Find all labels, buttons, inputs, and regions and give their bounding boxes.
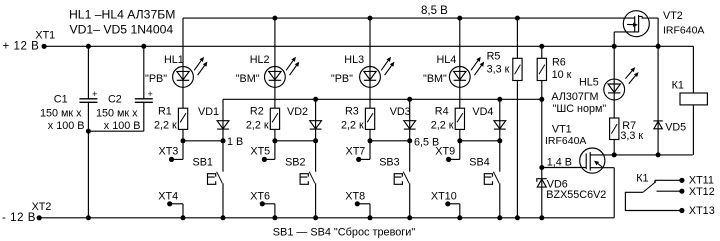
node HL4 on 8.5V bus [457,16,462,21]
node XT11 [679,178,684,183]
svg-text:R4: R4 [435,106,449,118]
wire K1 drive node [590,154,693,156]
svg-text:"РВ": "РВ" [145,73,167,85]
svg-text:BZX55C6V2: BZX55C6V2 [546,189,606,201]
resistor R2 2,2 к [246,106,280,132]
wire HL3 anode drop [369,18,371,108]
wire channel node 3 [370,140,410,142]
svg-text:2,2 к: 2,2 к [431,119,454,131]
node VD4 on VD bus [497,97,502,102]
wire HL2 anode drop [274,18,276,108]
relay contact K1 [625,173,682,211]
relay coil K1 [672,46,708,155]
wire VT2 source riser [613,32,615,46]
node XT4 on -12V bus [181,215,186,220]
node XT9 [435,141,460,162]
LED HL4 [423,54,484,87]
svg-text:C1: C1 [54,94,68,106]
push-button SB3 [379,141,410,218]
svg-text:SB2: SB2 [285,157,305,169]
node XT5 [250,141,275,162]
transistor VT1 IRF640A [545,124,614,174]
svg-text:"ВМ": "ВМ" [236,73,260,85]
wire R3 to node [369,129,371,140]
diode VD3 1N4004 [390,99,416,141]
wire HL4 anode drop [459,18,461,108]
wire HL5 anode drop [613,46,615,118]
svg-text:VT2: VT2 [663,10,683,22]
node VT1 gate junction [539,165,544,170]
wire HL1 anode drop [182,18,184,108]
svg-text:R3: R3 [345,106,359,118]
resistor R5 3,3 к [487,18,522,218]
svg-text:"РВ": "РВ" [331,73,353,85]
svg-text:XT13: XT13 [689,205,715,217]
node C1 on +12V bus [86,44,91,49]
node XT10 [431,191,460,218]
svg-text:+: + [92,89,97,99]
svg-text:150 мк х: 150 мк х [40,107,82,119]
node R5 on 8.5V bus [515,16,520,21]
svg-text:R6: R6 [552,57,566,69]
svg-text:XT12: XT12 [689,186,715,198]
svg-text:SB4: SB4 [469,157,489,169]
svg-text:х 100 В: х 100 В [48,120,85,132]
node VT2 drain on +12V bus [656,44,661,49]
wire R4 to node [459,129,461,140]
resistor R4 2,2 к [431,106,465,132]
svg-text:HL3: HL3 [344,54,364,66]
svg-text:VD1: VD1 [198,106,219,118]
svg-text:HL2: HL2 [250,54,270,66]
svg-text:C2: C2 [108,94,122,106]
svg-text:R1: R1 [158,106,172,118]
node XT8 [345,191,370,218]
svg-text:8,5 В: 8,5 В [421,5,448,17]
push-button SB4 [469,141,500,218]
wire R1 to node [182,129,184,140]
wire R2 to node [274,129,276,140]
node SB2 on -12V bus [313,215,318,220]
svg-text:"ШС норм": "ШС норм" [553,103,607,115]
zener diode VD6 BZX55C6V2 [537,168,607,218]
node XT10 on -12V bus [457,215,462,220]
svg-text:SB1: SB1 [193,157,213,169]
svg-text:SB3: SB3 [379,157,399,169]
resistor R6 10 к [537,46,571,167]
svg-text:3,3 к: 3,3 к [487,63,510,75]
node C1 ground junction [86,129,91,134]
svg-text:VD2: VD2 [287,106,308,118]
wire channel node 1 [183,140,223,142]
wire +8.5V top bus [183,17,635,19]
svg-text:XT10: XT10 [431,191,457,203]
push-button SB2 [285,141,316,218]
svg-text:HL5: HL5 [579,76,599,88]
svg-text:К1: К1 [636,173,648,185]
node XT8 on -12V bus [368,215,373,220]
LED HL1 [145,54,207,87]
svg-text:+ 12 В: + 12 В [3,40,40,52]
svg-text:х 100 В: х 100 В [104,120,141,132]
push-button SB1 [193,141,224,218]
wire channel node 4 [460,140,500,142]
wire channel node 2 [275,140,316,142]
svg-text:XT4: XT4 [158,191,178,203]
svg-text:1 В: 1 В [227,136,243,148]
wire -12V bottom bus [39,217,614,219]
capacitor C2 [96,46,153,132]
node C1 on -12V bus [86,215,91,220]
svg-text:XT3: XT3 [159,145,179,157]
svg-text:VD1– VD5 1N4004: VD1– VD5 1N4004 [70,23,174,37]
node VD2 on VD bus [313,97,318,102]
svg-text:150 мк х: 150 мк х [96,107,138,119]
svg-text:2,2 к: 2,2 к [154,119,177,131]
node XT4 [158,191,183,218]
transistor VT2 IRF640A [614,10,704,37]
node VD6 on -12V bus [539,215,544,220]
svg-text:VD3: VD3 [390,106,411,118]
svg-text:HL4: HL4 [437,54,457,66]
node R6 on VD bus [539,97,544,102]
svg-text:HL1 –HL4 АЛ37БМ: HL1 –HL4 АЛ37БМ [69,7,175,21]
wire VT1 gate [542,167,586,169]
diode VD1 1N4004 [198,99,229,141]
svg-text:- 12 В: - 12 В [2,212,36,224]
svg-text:SB1 — SB4 "Сброс тревоги": SB1 — SB4 "Сброс тревоги" [273,227,416,239]
svg-text:XT7: XT7 [346,145,366,157]
wire VD1-VD4 cathode bus [223,98,542,100]
node VD3 on VD bus [407,97,412,102]
svg-text:10 к: 10 к [552,69,572,81]
svg-text:VT1: VT1 [552,124,572,136]
svg-text:XT5: XT5 [250,145,270,157]
svg-text:1,4 В: 1,4 В [547,156,572,168]
svg-text:XT8: XT8 [345,191,365,203]
svg-text:2,2 к: 2,2 к [246,119,269,131]
svg-text:IRF640A: IRF640A [545,135,586,147]
node SB3 on -12V bus [407,215,412,220]
node XT6 [250,191,275,218]
svg-text:XT6: XT6 [250,191,270,203]
svg-text:2,2 к: 2,2 к [341,119,364,131]
wire C2 ground link [88,130,143,132]
resistor R7 3,3 к [610,118,644,155]
svg-text:VD4: VD4 [472,106,493,118]
node HL2 on 8.5V bus [272,16,277,21]
capacitor C1 [40,46,97,218]
node XT3 [159,141,184,162]
svg-text:XT11: XT11 [689,175,714,187]
LED HL5 [551,67,638,115]
svg-text:R2: R2 [250,106,264,118]
diode VD2 1N4004 [287,99,322,141]
svg-text:IRF640A: IRF640A [663,25,704,37]
wire +12V bus [44,45,693,47]
node R6 on +12V bus [539,44,544,49]
svg-text:VD5: VD5 [665,121,686,133]
svg-text:"ВМ": "ВМ" [423,73,447,85]
LED HL2 [236,54,300,87]
node SB4 on -12V bus [497,215,502,220]
node HL3 on 8.5V bus [368,16,373,21]
LED HL3 [331,54,395,87]
node SB1 on -12V bus [221,215,226,220]
wire VT2 drain riser [657,18,659,46]
node XT6 on -12V bus [272,215,277,220]
wire VT1 source riser [613,168,615,218]
node VT2 source on +12V bus [612,44,617,49]
node C2 on +12V bus [141,44,146,49]
svg-text:HL1: HL1 [164,54,184,66]
svg-text:6,5 В: 6,5 В [414,136,439,148]
node XT7 [346,141,371,162]
svg-text:К1: К1 [672,80,684,92]
svg-text:R5: R5 [487,51,501,63]
resistor R1 2,2 к [154,106,188,132]
node R5 on -12V bus [515,215,520,220]
diode VD4 1N4004 [472,99,505,141]
resistor R3 2,2 к [341,106,375,132]
diode VD5 1N4004 [653,46,686,155]
svg-text:+: + [148,89,153,99]
node XT12 [679,189,684,194]
svg-text:3,3 к: 3,3 к [620,130,643,142]
node XT13 [679,208,684,213]
svg-text:АЛ307ГМ: АЛ307ГМ [551,91,598,103]
